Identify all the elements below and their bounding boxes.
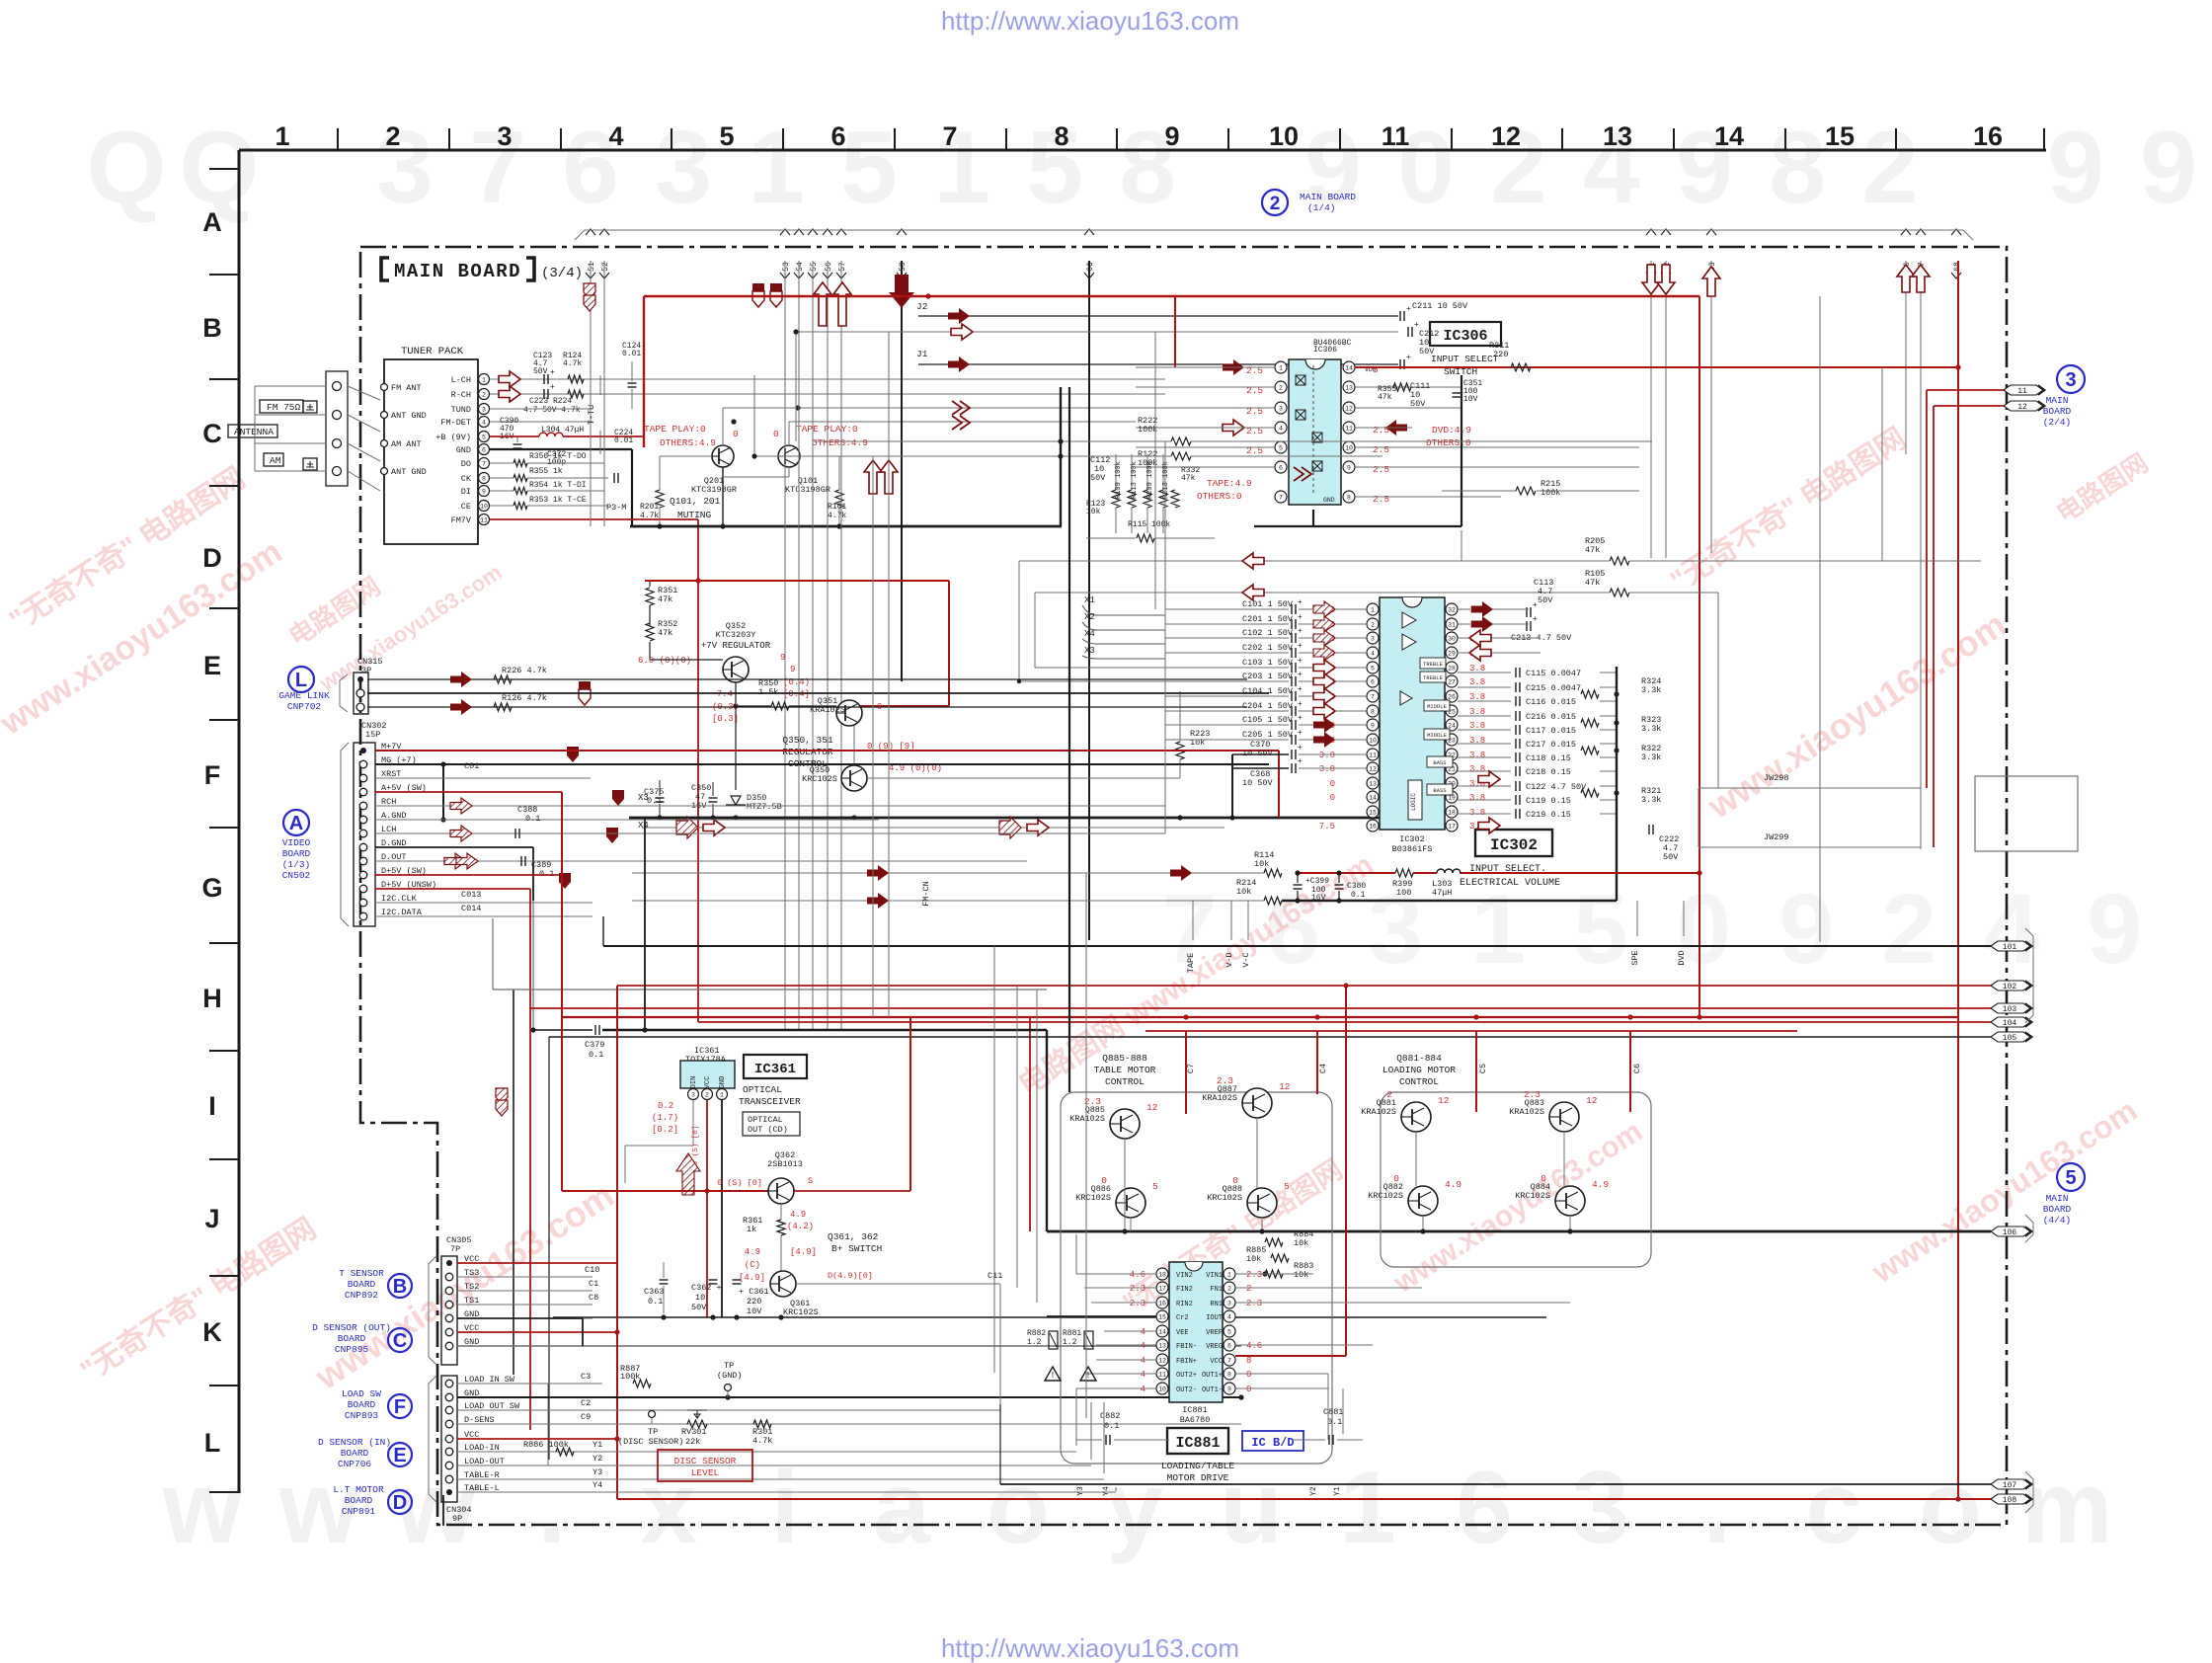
svg-text:BOARD: BOARD <box>282 848 311 859</box>
svg-text:15: 15 <box>1369 810 1377 817</box>
svg-text:4.6: 4.6 <box>1130 1270 1145 1280</box>
svg-text:0.01: 0.01 <box>614 436 633 445</box>
svg-text:L.T MOTOR: L.T MOTOR <box>333 1484 384 1495</box>
svg-text:2: 2 <box>1279 385 1283 392</box>
svg-text:100k: 100k <box>1540 488 1560 498</box>
svg-text:KRA102S: KRA102S <box>1202 1093 1237 1103</box>
svg-text:4: 4 <box>1141 1370 1145 1380</box>
svg-text:+7V REGULATOR: +7V REGULATOR <box>701 641 771 651</box>
wire J2 row <box>918 315 1398 317</box>
resistor ladder R109 R113 R209 R213 100k <box>1112 490 1120 508</box>
svg-text:C219 0.15: C219 0.15 <box>1526 810 1571 820</box>
transistor Q883 KRA102S <box>1549 1102 1579 1132</box>
wire edge connector drop <box>590 261 592 526</box>
transistor Q888 KRC102S <box>1247 1188 1277 1218</box>
svg-text:C013: C013 <box>461 890 481 900</box>
svg-text:C204 1 50V: C204 1 50V <box>1242 701 1294 711</box>
svg-text:C9: C9 <box>581 1412 591 1422</box>
svg-text:+: + <box>550 383 555 392</box>
svg-text:0: 0 <box>773 429 779 439</box>
wire red pair right edge from 11/12 <box>1927 389 2004 391</box>
svg-text:L304 47μH: L304 47μH <box>541 426 584 435</box>
wire regulator red loop <box>645 580 949 582</box>
svg-text:C117 0.015: C117 0.015 <box>1526 726 1576 736</box>
svg-text:+: + <box>1298 729 1303 738</box>
transistor Q351 KRA102S <box>836 700 862 726</box>
svg-text:+: + <box>1298 627 1303 636</box>
svg-text:VCC: VCC <box>1210 1358 1223 1366</box>
callout rounded box table motor group <box>1061 1092 1332 1464</box>
svg-text:a: a <box>873 1451 931 1565</box>
wire bottom black link from bus to 107 <box>999 1404 1001 1484</box>
svg-text:C216 0.015: C216 0.015 <box>1526 712 1576 722</box>
svg-text:INPUT SELECT: INPUT SELECT <box>1431 354 1499 364</box>
svg-text:107: 107 <box>2003 1481 2017 1490</box>
svg-text:(DISC SENSOR): (DISC SENSOR) <box>618 1437 683 1447</box>
svg-text:106: 106 <box>2003 1228 2017 1237</box>
svg-text:100k: 100k <box>1138 458 1157 468</box>
svg-text:FN1: FN1 <box>1210 1286 1223 1294</box>
svg-text:9: 9 <box>1164 121 1179 151</box>
svg-text:+B (9V): +B (9V) <box>435 433 471 442</box>
wire main black bus y828 <box>629 817 1382 820</box>
svg-text:F: F <box>204 760 221 790</box>
transistor Q885 KRA102S <box>1110 1109 1140 1139</box>
svg-text:6.8 (0)(0): 6.8 (0)(0) <box>638 656 691 666</box>
svg-text:3.8: 3.8 <box>1469 808 1485 818</box>
svg-text:OPTICAL: OPTICAL <box>748 1115 783 1125</box>
svg-text:5: 5 <box>1227 1329 1231 1336</box>
svg-text:56: 56 <box>825 262 833 272</box>
svg-text:50V: 50V <box>1538 595 1553 605</box>
svg-text:(1/4): (1/4) <box>1307 202 1336 213</box>
svg-text:31: 31 <box>1448 622 1456 629</box>
svg-text:53: 53 <box>782 262 791 272</box>
svg-text:!: ! <box>1050 1371 1055 1381</box>
wire CN302 M+7V red row <box>375 750 1279 752</box>
svg-text:+: + <box>1414 321 1419 330</box>
svg-text:C203 1 50V: C203 1 50V <box>1242 672 1294 681</box>
wire long vertical red x537 <box>529 889 531 1430</box>
svg-text:R226 4.7k: R226 4.7k <box>502 666 547 675</box>
svg-text:TRANSCEIVER: TRANSCEIVER <box>739 1096 801 1107</box>
capacitor C379 0.1 <box>594 1025 596 1035</box>
svg-text:VCC: VCC <box>704 1076 712 1089</box>
svg-text:4.9: 4.9 <box>1445 1179 1461 1190</box>
svg-text:Q101, 201: Q101, 201 <box>670 496 721 507</box>
svg-text:C: C <box>202 419 222 448</box>
svg-text:7P: 7P <box>450 1244 460 1254</box>
svg-text:X4: X4 <box>638 821 649 831</box>
edge connector <102> <box>1991 981 2030 990</box>
svg-text:CN502: CN502 <box>282 870 311 881</box>
wire IC361 VCC red drop <box>706 1100 708 1317</box>
svg-text:5: 5 <box>1284 1181 1290 1192</box>
wire FM7V red drop x707 <box>697 519 699 1022</box>
wire Q882 leads <box>1422 1216 1424 1228</box>
arrow up outline below 63 <box>1702 267 1720 296</box>
capacitor C380 0.1 <box>1335 884 1344 886</box>
svg-text:12: 12 <box>1438 1095 1450 1106</box>
svg-text:L: L <box>295 670 307 691</box>
svg-text:(2/4): (2/4) <box>2043 417 2072 428</box>
wire gray right area verticals <box>1881 367 1883 561</box>
svg-text:C6: C6 <box>1632 1064 1642 1073</box>
svg-text:R354 1k T-DI: R354 1k T-DI <box>529 481 587 490</box>
svg-text:12: 12 <box>2017 403 2027 412</box>
arrow left outline rows <box>1242 553 1264 569</box>
svg-text:12: 12 <box>1279 1081 1291 1092</box>
svg-text:BOARD: BOARD <box>345 1495 373 1506</box>
svg-text:1: 1 <box>482 377 486 384</box>
svg-text:TUNER PACK: TUNER PACK <box>401 346 464 357</box>
svg-text:0.1: 0.1 <box>1351 891 1366 900</box>
wire black vertical x1074 <box>1060 387 1062 526</box>
svg-text:CNP893: CNP893 <box>345 1410 379 1421</box>
wire long vertical gray x1740 <box>1717 593 1719 788</box>
svg-text:+: + <box>1406 354 1411 362</box>
wire long vertical x1170 gray <box>1154 332 1156 609</box>
label IC B/D blue box <box>1242 1431 1303 1451</box>
svg-text:10V: 10V <box>1463 395 1478 404</box>
wire edge connector drop <box>901 261 903 681</box>
edge connector <62> <box>1661 229 1671 235</box>
svg-text:22k: 22k <box>685 1437 700 1447</box>
svg-text:47k: 47k <box>658 594 672 604</box>
svg-text:MTZ7.5B: MTZ7.5B <box>747 802 782 812</box>
svg-text:9: 9 <box>2047 111 2104 225</box>
svg-text:OPTICAL: OPTICAL <box>743 1084 782 1095</box>
wire verticals below IC306 <box>1461 530 1462 561</box>
svg-text:C205 1 50V: C205 1 50V <box>1242 730 1294 740</box>
svg-text:OTHERS:0: OTHERS:0 <box>1426 437 1471 448</box>
edge connector <12> <box>2004 401 2043 411</box>
wire corner x611 up <box>602 916 604 946</box>
transistor Q201 KTC3198GR <box>712 445 734 467</box>
svg-text:X3: X3 <box>1084 646 1095 656</box>
svg-text:2.3: 2.3 <box>1246 1299 1262 1308</box>
svg-text:100: 100 <box>1396 888 1411 898</box>
svg-text:3: 3 <box>691 1092 695 1099</box>
node marker 3 MAIN BOARD (2/4) <box>2057 365 2085 393</box>
svg-text:C105 1 50V: C105 1 50V <box>1242 715 1294 725</box>
svg-text:C118 0.15: C118 0.15 <box>1526 753 1571 763</box>
svg-text:C201 1 50V: C201 1 50V <box>1242 614 1294 624</box>
wire edge connector drop <box>812 261 814 1030</box>
transistor Q361 KRC102S <box>770 1271 796 1297</box>
svg-text:52: 52 <box>601 262 610 272</box>
svg-text:S: S <box>808 1176 813 1186</box>
wire long vertical x1180 gray <box>1164 441 1166 833</box>
svg-text:2.5: 2.5 <box>1373 464 1389 475</box>
svg-text:15P: 15P <box>365 730 380 740</box>
svg-text:104: 104 <box>2003 1019 2017 1028</box>
svg-text:G: G <box>201 873 222 903</box>
svg-text:0: 0 <box>1246 1385 1251 1394</box>
wire red vertical x1043 from bus <box>1029 1017 1031 1231</box>
edge connector <108> <box>1991 1494 2030 1504</box>
svg-text:CNP892: CNP892 <box>345 1290 379 1301</box>
svg-text:10: 10 <box>480 504 488 511</box>
wire CN304 rows <box>457 1383 602 1385</box>
svg-text:MAIN BOARD: MAIN BOARD <box>1300 192 1356 202</box>
svg-text:2.5: 2.5 <box>1373 494 1389 505</box>
wire bus y1043 <box>533 1029 592 1031</box>
svg-text:5: 5 <box>840 111 898 225</box>
svg-text:VEE: VEE <box>1176 1329 1189 1337</box>
svg-text:101: 101 <box>2003 943 2017 952</box>
wire row to <106> <box>1047 1230 1991 1233</box>
callout rounded box loading motor group <box>1381 1092 1651 1267</box>
svg-text:AM ANT: AM ANT <box>391 439 422 449</box>
svg-text:Y3: Y3 <box>592 1467 602 1477</box>
wire row to <104> red <box>698 1021 1991 1023</box>
svg-text:Y1: Y1 <box>592 1440 602 1450</box>
wire red vertical x625 to <108> <box>616 986 618 1499</box>
svg-text:13: 13 <box>1345 385 1353 392</box>
connector marker A VIDEO BOARD CN502 <box>283 810 309 835</box>
op-amp IC306 input select switch <box>1289 359 1341 505</box>
inductor L303 47uH <box>1437 869 1461 873</box>
svg-text:FM-CN: FM-CN <box>921 881 931 907</box>
svg-text:2SB1013: 2SB1013 <box>767 1159 803 1169</box>
callout bracket right edge <box>2025 928 2033 1513</box>
svg-text:TREBLE: TREBLE <box>1423 661 1444 668</box>
wire row y1002 <box>493 989 1047 990</box>
svg-text:27: 27 <box>1448 679 1456 686</box>
svg-text:SPE: SPE <box>1630 950 1640 965</box>
svg-text:C104 1 50V: C104 1 50V <box>1242 686 1294 696</box>
svg-text:[0.2]: [0.2] <box>652 1125 678 1135</box>
svg-text:1: 1 <box>1470 874 1526 985</box>
svg-text:KRC102S: KRC102S <box>1075 1193 1111 1203</box>
svg-text:D: D <box>202 543 222 573</box>
svg-text:OUT1-: OUT1- <box>1202 1386 1223 1394</box>
wire table motor internal <box>1124 1139 1126 1231</box>
edge connector <11> <box>2004 385 2043 395</box>
edge connector <105> <box>1991 1032 2030 1042</box>
svg-text:RIN2: RIN2 <box>1176 1301 1193 1308</box>
svg-text:F: F <box>394 1396 406 1418</box>
wire CN302 XRST row <box>375 777 591 779</box>
svg-text:7: 7 <box>482 461 486 468</box>
svg-text:MIDDLE: MIDDLE <box>1427 732 1448 739</box>
svg-text:3: 3 <box>655 111 712 225</box>
svg-text:V-D: V-D <box>1224 952 1234 967</box>
svg-text:GND: GND <box>456 445 471 455</box>
arrow up outline mid pair <box>864 460 882 494</box>
svg-text:GND: GND <box>719 1076 727 1089</box>
svg-text:11: 11 <box>1345 426 1353 433</box>
svg-text:4: 4 <box>1141 1356 1145 1366</box>
wire red vertical to IC881 VCC <box>1345 986 1347 1356</box>
wire row y413 to IC306 <box>723 407 1275 409</box>
edge connector <67> <box>1916 229 1926 235</box>
svg-text:50V: 50V <box>691 1303 707 1312</box>
svg-text:11: 11 <box>1382 121 1410 151</box>
svg-text:47μH: 47μH <box>1432 888 1452 898</box>
arrow down filled at 58 <box>889 275 914 308</box>
svg-text:KRC102S: KRC102S <box>783 1307 819 1317</box>
wire IC881 right wiring <box>1235 1273 1313 1275</box>
connector marker D L-T MOTOR BOARD CNP891 <box>388 1490 412 1514</box>
svg-text:BA6780: BA6780 <box>1180 1415 1211 1425</box>
edge connector <54> <box>794 229 804 235</box>
wire row to <108> red <box>617 1498 1991 1500</box>
svg-text:10 50V: 10 50V <box>1242 778 1274 788</box>
wire row y447 <box>814 440 1171 442</box>
svg-text:H: H <box>202 984 222 1013</box>
svg-text:JW299: JW299 <box>1764 832 1789 842</box>
svg-text:5: 5 <box>2065 1167 2076 1189</box>
svg-text:C215 0.0047: C215 0.0047 <box>1526 683 1581 693</box>
svg-text:+: + <box>1298 598 1303 607</box>
svg-text:VREG: VREG <box>1206 1343 1223 1351</box>
svg-text:JW298: JW298 <box>1764 773 1789 783</box>
svg-text:18: 18 <box>1158 1272 1166 1279</box>
svg-text:7: 7 <box>1279 495 1283 502</box>
node marker 2 MAIN BOARD (1/4) <box>1262 190 1288 215</box>
svg-text:o: o <box>987 1451 1050 1565</box>
svg-text:ANT GND: ANT GND <box>391 467 427 477</box>
svg-text:X3: X3 <box>638 793 649 803</box>
svg-text:17: 17 <box>1158 1286 1166 1293</box>
wire red vertical x1721 <box>1698 296 1700 1017</box>
svg-text:9: 9 <box>482 489 486 496</box>
svg-text:ANT GND: ANT GND <box>391 411 427 421</box>
svg-text:+C399: +C399 <box>1305 877 1329 886</box>
svg-text:AM: AM <box>270 455 281 466</box>
svg-text:DI: DI <box>461 487 471 497</box>
svg-text:0.1: 0.1 <box>539 869 554 879</box>
svg-text:7: 7 <box>1371 694 1375 701</box>
svg-text:+ C361: + C361 <box>739 1287 769 1297</box>
label IC306 box <box>1430 322 1501 346</box>
svg-text:11: 11 <box>1158 1372 1166 1379</box>
svg-text:KRA102S: KRA102S <box>1509 1107 1544 1117</box>
svg-text:1: 1 <box>1339 1451 1396 1565</box>
wire CN305 rows <box>457 1276 592 1278</box>
svg-text:4: 4 <box>1227 1314 1231 1321</box>
wire IC361 GND drop <box>721 1100 723 1317</box>
svg-text:58: 58 <box>899 262 908 272</box>
svg-text:C202 1 50V: C202 1 50V <box>1242 643 1294 653</box>
edge connector <101> <box>1991 941 2030 951</box>
svg-text:[4.9]: [4.9] <box>739 1273 765 1283</box>
wire Q881 leads <box>1415 1132 1417 1145</box>
node marker 5 MAIN BOARD (4/4) <box>2057 1163 2085 1191</box>
svg-text:C102 1 50V: C102 1 50V <box>1242 628 1294 638</box>
svg-text:10: 10 <box>1269 121 1299 151</box>
svg-text:[4.9]: [4.9] <box>790 1247 817 1257</box>
svg-text:7.4: 7.4 <box>717 689 733 699</box>
svg-text:57: 57 <box>838 262 847 272</box>
svg-text:+: + <box>1298 714 1303 723</box>
svg-text:T SENSOR: T SENSOR <box>339 1268 384 1279</box>
wire Q201 emitter drop <box>722 467 724 526</box>
svg-text:J: J <box>204 1204 219 1233</box>
wire row under J2 <box>798 331 1398 333</box>
wire CN302 D.OUT row <box>375 860 1027 862</box>
svg-text:CK: CK <box>461 474 472 484</box>
svg-text:13: 13 <box>1369 781 1377 788</box>
svg-text:MAIN: MAIN <box>2046 395 2069 406</box>
wire row y427 <box>789 421 1136 423</box>
svg-text:4: 4 <box>1371 651 1375 658</box>
svg-text:2: 2 <box>1270 194 1281 214</box>
wire edge connector drop <box>1665 261 1667 558</box>
wire red R311 row to right edge <box>1378 366 1958 368</box>
wire edge connector drop <box>798 261 800 1030</box>
svg-text:X4: X4 <box>1084 629 1095 639</box>
wire red IC306 VDD feed <box>1174 296 1176 367</box>
svg-text:50V: 50V <box>533 367 548 376</box>
svg-text:C101 1 50V: C101 1 50V <box>1242 599 1294 609</box>
svg-text:X1: X1 <box>1084 595 1095 605</box>
svg-text:Q: Q <box>87 111 167 225</box>
svg-text:OUT2-: OUT2- <box>1176 1386 1197 1394</box>
svg-text:C119 0.15: C119 0.15 <box>1526 796 1571 806</box>
wire CN302 RCH row <box>375 805 1165 807</box>
svg-text:54: 54 <box>796 262 805 272</box>
svg-text:C1: C1 <box>589 1279 598 1289</box>
svg-text:2.3: 2.3 <box>1524 1089 1540 1100</box>
svg-text:[0.4]: [0.4] <box>783 689 810 699</box>
resistor R114 10k <box>1264 869 1282 877</box>
svg-text:5: 5 <box>719 121 734 151</box>
arrow chevron into pin4 <box>1223 420 1244 436</box>
svg-text:VIN2: VIN2 <box>1176 1272 1193 1280</box>
wire row to <101> <box>603 945 1991 947</box>
wire edge connector drop <box>1920 261 1922 849</box>
svg-text:C8: C8 <box>589 1293 598 1303</box>
svg-text:14: 14 <box>1158 1329 1166 1336</box>
svg-text:BOARD: BOARD <box>348 1399 376 1410</box>
svg-text:3.8: 3.8 <box>1469 677 1485 687</box>
svg-text:MIDDLE: MIDDLE <box>1427 703 1448 710</box>
svg-text:3.8: 3.8 <box>1319 751 1335 760</box>
transistor Q882 KRC102S <box>1408 1186 1438 1216</box>
svg-text:MAIN: MAIN <box>2046 1193 2069 1204</box>
svg-text:1: 1 <box>275 121 289 151</box>
svg-text:3: 3 <box>1368 874 1423 985</box>
svg-text:(1/3): (1/3) <box>282 859 311 870</box>
edge connector <106> <box>1991 1227 2030 1236</box>
svg-text:2: 2 <box>705 1092 709 1099</box>
op-amp IC881 loading/table motor drive <box>1169 1262 1223 1402</box>
svg-text:10: 10 <box>1369 738 1377 745</box>
svg-text:1: 1 <box>1371 607 1375 614</box>
svg-text:C379: C379 <box>585 1040 604 1050</box>
svg-text:MAIN BOARD: MAIN BOARD <box>394 261 521 282</box>
wire IC306 pin wiring left <box>1136 366 1275 368</box>
svg-text:2: 2 <box>1246 1284 1251 1294</box>
pennant arrows left of bus <box>579 681 591 697</box>
svg-text:100k: 100k <box>620 1372 640 1382</box>
svg-text:3: 3 <box>497 121 512 151</box>
wire CN304 ground to border <box>442 1495 444 1526</box>
wire edge connector drop <box>784 261 786 1030</box>
svg-text:y: y <box>1106 1451 1163 1565</box>
connector marker L GAME LINK CNP702 <box>288 667 314 692</box>
svg-text:0.01: 0.01 <box>622 350 641 358</box>
svg-text:P3-M: P3-M <box>606 503 626 513</box>
svg-text:R115 100k: R115 100k <box>1128 520 1170 529</box>
label DISC SENSOR LEVEL red box <box>658 1450 752 1481</box>
svg-text:3.3k: 3.3k <box>1641 724 1661 734</box>
svg-text:47k: 47k <box>1585 545 1600 555</box>
svg-text:Cr2: Cr2 <box>1176 1314 1189 1322</box>
